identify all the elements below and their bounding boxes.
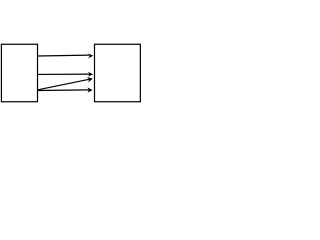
arrow 4 (bottom horizontal) [38, 87, 93, 92]
right block [95, 44, 141, 102]
arrow 2 (middle horizontal) [38, 72, 93, 77]
background [0, 0, 143, 104]
arrow 1 (top, left block to right block) [38, 53, 93, 58]
left block [1, 44, 37, 102]
arrow 3 (diagonal from bottom-left anchor up to right) [38, 77, 93, 90]
